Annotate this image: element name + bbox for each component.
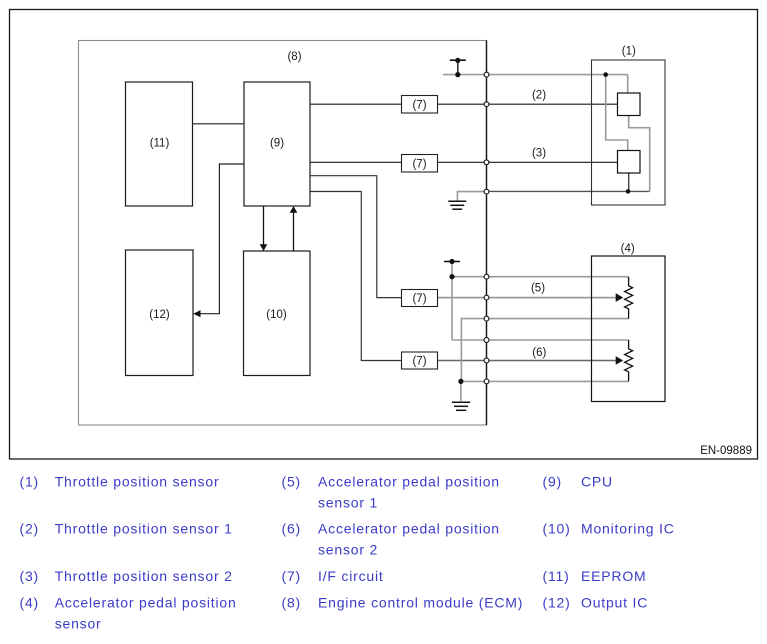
accelerator pedal sensor box (4) <box>592 256 666 402</box>
svg-text:Accelerator pedal position: Accelerator pedal position <box>318 473 500 489</box>
wire (5) I/F to pot 1 wiper <box>438 297 617 299</box>
svg-text:(4): (4) <box>20 594 40 610</box>
ECM module boundary box (8) <box>79 41 487 426</box>
ground wire throttle sensor <box>457 192 486 201</box>
wire (6) I/F to pot 2 wiper <box>438 360 617 362</box>
ground symbol G2 <box>452 401 470 403</box>
wire (3) CPU to I/F to sensor 2 <box>310 161 402 163</box>
svg-text:(10): (10) <box>543 520 571 536</box>
ground symbol G1 <box>448 200 466 202</box>
svg-text:(5): (5) <box>282 473 302 489</box>
Output IC box (12) <box>126 250 194 376</box>
wire (2) CPU to I/F to sensor 1 <box>310 103 402 105</box>
throttle position sensor box (1) <box>592 60 666 205</box>
junction dot power B1 top <box>455 58 460 63</box>
svg-text:EN-09889: EN-09889 <box>700 445 752 457</box>
svg-text:(11): (11) <box>543 568 570 584</box>
svg-text:(7): (7) <box>412 158 426 170</box>
svg-text:(4): (4) <box>621 243 635 255</box>
supply wire pot 2 <box>452 339 629 341</box>
sensor square 2 ground drop <box>628 173 630 191</box>
svg-text:EEPROM: EEPROM <box>581 568 646 584</box>
I/F circuit box (7) wire 6 <box>402 352 438 369</box>
wire CPU left to Output IC with arrow <box>200 164 245 314</box>
legend <box>20 473 675 631</box>
svg-text:(7): (7) <box>412 99 426 111</box>
wire CPU to I/F circuit (6) <box>310 192 402 361</box>
svg-text:Throttle position sensor 2: Throttle position sensor 2 <box>55 568 233 584</box>
arrow CPU down to Monitoring IC <box>263 206 265 246</box>
connector circle row <box>484 72 489 384</box>
svg-text:(2): (2) <box>532 90 546 102</box>
svg-text:(9): (9) <box>270 138 284 150</box>
svg-text:(2): (2) <box>20 520 40 536</box>
svg-text:(1): (1) <box>622 46 636 58</box>
svg-text:(7): (7) <box>412 293 426 305</box>
svg-text:Throttle position sensor: Throttle position sensor <box>55 473 220 489</box>
sensor element square 2 <box>618 151 641 174</box>
supply wire pot 1 <box>452 276 629 278</box>
svg-text:(12): (12) <box>543 594 571 610</box>
arrow Monitoring IC up to CPU <box>293 212 295 252</box>
svg-text:(7): (7) <box>412 356 426 368</box>
svg-text:(3): (3) <box>532 148 546 160</box>
svg-text:(8): (8) <box>282 594 302 610</box>
svg-text:(11): (11) <box>150 138 170 150</box>
svg-text:I/F circuit: I/F circuit <box>318 568 384 584</box>
svg-text:Accelerator pedal position: Accelerator pedal position <box>55 594 237 610</box>
sensor square 1 return route <box>629 116 650 192</box>
supply branch to sensor square 1 <box>627 75 629 93</box>
power symbol B1 <box>450 59 466 61</box>
svg-text:(1): (1) <box>20 473 40 489</box>
svg-text:(6): (6) <box>282 520 302 536</box>
svg-text:(6): (6) <box>532 347 546 359</box>
svg-text:sensor: sensor <box>55 615 102 631</box>
supply wire to throttle sensor <box>443 74 628 76</box>
Monitoring IC box (10) <box>244 251 311 376</box>
ground stem G2 <box>460 381 462 401</box>
junction dot power B2 top <box>449 259 454 264</box>
power symbol B2 <box>444 261 460 263</box>
EEPROM box (11) <box>126 82 193 206</box>
junction dot ground <box>626 189 631 194</box>
svg-text:CPU: CPU <box>581 473 613 489</box>
junction dot ground 2 <box>458 379 463 384</box>
svg-text:(5): (5) <box>531 283 545 295</box>
pot 2 return wire <box>461 380 629 382</box>
wire CPU to I/F circuit (5) <box>310 176 402 298</box>
CPU box (9) <box>244 82 310 206</box>
potentiometer 1 <box>625 277 633 319</box>
junction dot power B2 on wire <box>449 274 454 279</box>
svg-text:(10): (10) <box>266 309 287 321</box>
I/F circuit box (7) wire 3 <box>402 155 438 173</box>
junction dot power B1 on wire <box>455 72 460 77</box>
svg-text:sensor 2: sensor 2 <box>318 541 378 557</box>
potentiometer 2 <box>625 340 633 381</box>
wire EEPROM to CPU <box>193 123 245 125</box>
svg-text:(3): (3) <box>20 568 40 584</box>
svg-text:(9): (9) <box>543 473 563 489</box>
connector bus line (right edge of ECM) <box>486 41 488 426</box>
svg-text:(7): (7) <box>282 568 302 584</box>
junction dot supply <box>603 72 608 77</box>
svg-text:Accelerator pedal position: Accelerator pedal position <box>318 520 500 536</box>
I/F circuit box (7) wire 5 <box>402 290 438 307</box>
svg-text:Monitoring IC: Monitoring IC <box>581 520 675 536</box>
svg-text:Engine control module (ECM): Engine control module (ECM) <box>318 594 523 610</box>
supply branch to sensor square 2 <box>606 75 628 151</box>
svg-text:Output IC: Output IC <box>581 594 648 610</box>
outer border frame <box>10 10 758 460</box>
sensor element square 1 <box>618 93 641 116</box>
svg-text:Throttle position sensor 1: Throttle position sensor 1 <box>55 520 233 536</box>
svg-text:sensor 1: sensor 1 <box>318 494 378 510</box>
pot 1 return wire <box>461 319 628 382</box>
svg-text:(8): (8) <box>287 51 301 63</box>
svg-text:(12): (12) <box>149 309 170 321</box>
I/F circuit box (7) wire 2 <box>402 96 438 114</box>
